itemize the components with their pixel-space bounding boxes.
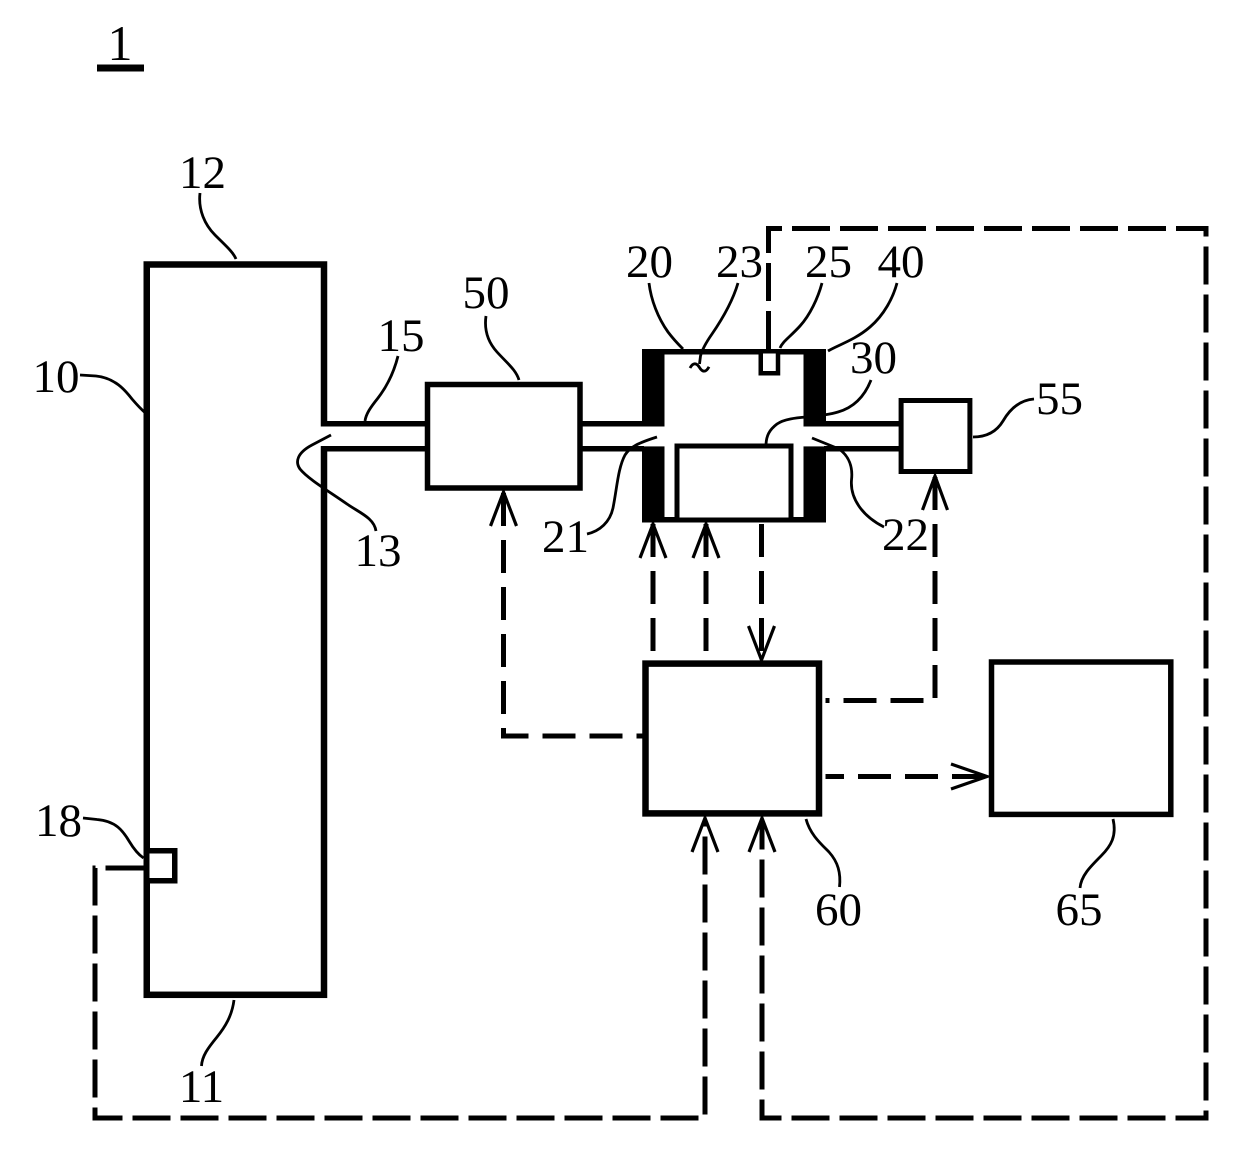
controller 60 xyxy=(646,664,820,814)
svg-text:60: 60 xyxy=(815,884,862,936)
dashed signal line: sensor 25/23 to controller 60 (right dashed run) xyxy=(762,229,1206,1119)
label 20 xyxy=(626,236,673,288)
label 11 xyxy=(179,1061,224,1113)
leader line for label 20 xyxy=(649,283,683,349)
svg-text:65: 65 xyxy=(1056,884,1103,936)
level sensor 18 (square on tank left wall) xyxy=(147,851,175,881)
svg-text:10: 10 xyxy=(33,351,80,403)
label 23 xyxy=(716,236,763,288)
svg-text:20: 20 xyxy=(626,236,673,288)
svg-text:11: 11 xyxy=(179,1061,224,1113)
leader line for label 60 xyxy=(806,819,840,887)
arrowhead into chamber 20 bottom (left) xyxy=(640,524,666,558)
leader line for label 25 xyxy=(780,283,822,348)
svg-text:30: 30 xyxy=(850,332,897,384)
svg-text:21: 21 xyxy=(542,511,589,563)
label 21 xyxy=(542,511,589,563)
chamber 20 top wall xyxy=(642,349,826,355)
leader line for label 11 xyxy=(202,1000,235,1066)
leader line for label 23 (with hook on chamber top interior) xyxy=(690,283,738,371)
svg-text:18: 18 xyxy=(35,795,82,847)
outlet port 22 (right black bar of chamber 20) xyxy=(804,349,827,523)
arrowhead into pump 50 bottom xyxy=(491,492,517,526)
tank 10 (fuel tank outline) xyxy=(147,265,331,995)
label 22 xyxy=(882,509,929,561)
pipe 15 upper segment (tank to pump 50), top and bottom walls xyxy=(321,424,644,449)
pipe segment (chamber 20 to valve 55) xyxy=(824,424,901,449)
leader line for label 30 xyxy=(766,380,871,444)
figure number 1 with underline xyxy=(97,15,144,71)
svg-text:40: 40 xyxy=(878,236,925,288)
arrowhead into chamber 20 bottom (right) xyxy=(693,524,719,558)
dashed control line: controller 60 to chamber 20 (right) xyxy=(704,524,709,660)
leader line for label 10 xyxy=(80,375,146,413)
svg-text:13: 13 xyxy=(355,525,402,577)
label 40 xyxy=(878,236,925,288)
svg-text:25: 25 xyxy=(805,236,852,288)
label 12 xyxy=(179,147,226,199)
dashed control line: controller 60 to valve 55 xyxy=(826,477,936,701)
inlet port 21 (left black bar of chamber 20) xyxy=(642,349,665,523)
label 15 xyxy=(378,310,425,362)
arrowhead into controller 60 bottom (from sensor 18 line) xyxy=(692,818,718,852)
leader line for label 15 xyxy=(365,356,398,421)
heater 30 (inner box of chamber 20) xyxy=(677,446,791,520)
label 10 xyxy=(33,351,80,403)
arrowhead into controller 60 bottom (from sensor 25 line) xyxy=(749,818,775,852)
sensor 25 (small square on chamber top) xyxy=(761,351,778,373)
svg-text:15: 15 xyxy=(378,310,425,362)
pump 50 xyxy=(428,385,581,489)
svg-text:22: 22 xyxy=(882,509,929,561)
leader line for label 22 xyxy=(812,438,884,527)
label 55 xyxy=(1036,373,1083,425)
leader line for label 65 xyxy=(1080,819,1114,888)
leader line for label 12 xyxy=(200,193,236,259)
label 30 xyxy=(850,332,897,384)
svg-text:50: 50 xyxy=(463,267,510,319)
svg-text:1: 1 xyxy=(108,15,133,71)
leader line for label 50 xyxy=(485,316,519,380)
label 50 xyxy=(463,267,510,319)
svg-text:12: 12 xyxy=(179,147,226,199)
leader line for label 55 xyxy=(973,399,1034,437)
dashed control line: controller 60 to pump 50 xyxy=(504,493,646,736)
dashed signal line: heater 30 down to controller 60 xyxy=(759,524,764,657)
arrowhead into valve 55 bottom xyxy=(923,476,948,510)
dashed control line: controller 60 to display 65 xyxy=(826,774,986,779)
label 13 xyxy=(355,525,402,577)
leader line for label 21 xyxy=(587,437,657,534)
label 18 xyxy=(35,795,82,847)
dashed control line: controller 60 to chamber 20 (left) xyxy=(651,524,656,660)
dashed signal line: sensor 18 to controller 60 (left dashed run) xyxy=(95,820,705,1118)
chamber 20 bottom wall xyxy=(642,517,826,523)
label 65 xyxy=(1056,884,1103,936)
label 25 xyxy=(805,236,852,288)
leader line for label 18 xyxy=(83,818,144,858)
svg-text:55: 55 xyxy=(1036,373,1083,425)
arrowhead down into controller 60 top xyxy=(749,626,775,660)
leader line for label 13 xyxy=(298,435,376,531)
valve 55 xyxy=(901,401,970,472)
svg-text:23: 23 xyxy=(716,236,763,288)
display 65 xyxy=(992,662,1171,814)
arrowhead into display 65 left side xyxy=(951,764,987,789)
label 60 xyxy=(815,884,862,936)
leader line for label 40 xyxy=(828,283,897,351)
